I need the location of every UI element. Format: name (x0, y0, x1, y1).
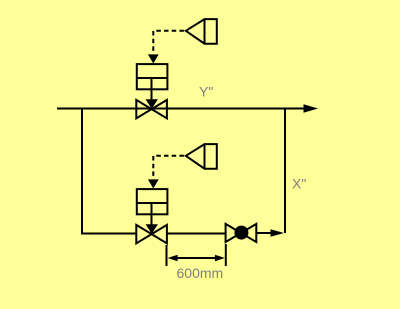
valve V1: upper control valve body (136, 100, 167, 119)
valve V3: ball element (filled circle) (234, 226, 248, 240)
label 600mm (177, 265, 224, 281)
valve V2: lower control valve body (136, 225, 167, 244)
wire: bottom line middle segment (167, 233, 226, 235)
arrow: main line flow arrow (304, 104, 319, 112)
pilot P1: upper horn/bugle symbol (186, 19, 217, 44)
wire: bottom line right segment (256, 232, 272, 234)
dimension: left witness line (166, 245, 168, 266)
arrow: A2 stem arrowhead onto V2 (146, 224, 158, 234)
svg-text:600mm: 600mm (177, 265, 224, 281)
signal line: dashed pilot signal to A2 (153, 156, 186, 179)
svg-text:Y": Y" (199, 84, 213, 100)
wire: right vertical riser X (284, 108, 286, 234)
arrow: dashed signal arrowhead into A2 (148, 179, 159, 188)
actuator A1: upper actuator box (137, 64, 168, 101)
actuator A2: lower actuator box (137, 189, 168, 226)
label Y" (199, 84, 213, 100)
wire: main header line (57, 108, 306, 110)
arrow: A1 stem arrowhead onto V1 (146, 99, 158, 109)
svg-text:X": X" (292, 176, 306, 192)
pilot P2: lower horn/bugle symbol (186, 144, 217, 169)
arrow: dashed signal arrowhead into A1 (148, 54, 159, 63)
wire: left vertical branch (81, 108, 83, 235)
arrow: flow arrow into riser (271, 229, 285, 237)
dimension: double arrow line (168, 255, 225, 261)
dimension: right witness line (225, 244, 227, 266)
label X" (292, 176, 306, 192)
wire: bottom line left segment (81, 233, 137, 235)
valve V3: ball valve body (226, 224, 257, 242)
signal line: dashed pilot signal to A1 (153, 31, 186, 54)
